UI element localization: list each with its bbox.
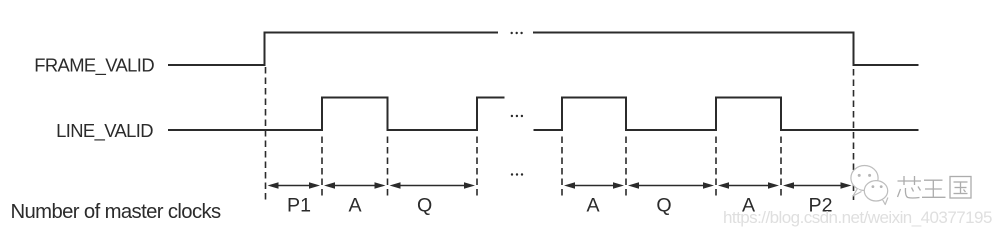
node dashed marker x=562 (561, 137, 563, 200)
wire FRAME_VALID waveform right (high, fall, low to end) (533, 33, 919, 66)
node dashed marker at FRAME_VALID rise x=265 (265, 67, 267, 200)
dimension arrow A interval 2 (564, 182, 624, 189)
node dashed marker x=781 (780, 137, 782, 200)
wire FRAME_VALID waveform left (low, rise, high to break) (168, 33, 498, 66)
wire LINE_VALID waveform left (low, pulse A, low, partial pulse to break) (168, 98, 505, 131)
watermark character 国 (950, 177, 971, 199)
dimension arrow P1 interval (268, 182, 321, 189)
dimension arrow Q interval 2 (628, 182, 714, 189)
watermark chat icon big bubble (851, 166, 878, 197)
svg-text:A: A (586, 194, 600, 216)
node dashed marker x=716 (715, 137, 717, 200)
svg-text:Q: Q (417, 194, 432, 216)
svg-text:https://blog.csdn.net/weixin_4: https://blog.csdn.net/weixin_40377195 (723, 208, 992, 227)
svg-text:A: A (348, 194, 362, 216)
svg-text:P1: P1 (287, 194, 311, 216)
dimension arrow P2 interval (783, 182, 852, 189)
watermark character 芯 (898, 176, 922, 198)
watermark chat icon small bubble (864, 181, 888, 205)
dimension arrow A interval 3 (718, 182, 779, 189)
node ellipsis on FRAME_VALID high line (511, 32, 523, 34)
node ellipsis on dimension row (511, 173, 523, 175)
svg-text:FRAME_VALID: FRAME_VALID (34, 55, 154, 77)
watermark character 王 (922, 180, 946, 197)
dimension arrow A interval 1 (324, 182, 386, 189)
svg-text:LINE_VALID: LINE_VALID (56, 120, 153, 142)
node dashed marker at FRAME_VALID fall x=853.5 (853, 69, 855, 200)
node dashed marker x=477 (476, 137, 478, 200)
dimension arrow Q interval 1 (390, 182, 476, 189)
node dashed marker x=626 (625, 137, 627, 200)
node dashed marker x=322 (321, 137, 323, 200)
node ellipsis on LINE_VALID row (511, 115, 523, 117)
svg-text:Q: Q (656, 194, 671, 216)
wire LINE_VALID waveform right (low, pulse, low, pulse, low to end) (534, 98, 919, 131)
svg-text:Number of master clocks: Number of master clocks (11, 201, 222, 223)
node dashed marker x=387.5 (387, 137, 389, 200)
